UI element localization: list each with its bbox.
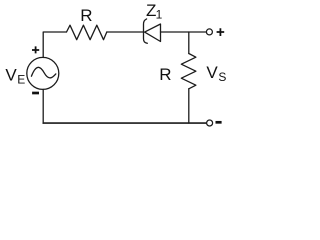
svg-text:S: S — [218, 70, 226, 84]
AC voltage source VE sine wave — [31, 67, 55, 78]
svg-text:V: V — [5, 66, 17, 85]
polarity - of source — [32, 92, 39, 95]
svg-text:V: V — [206, 63, 218, 82]
AC voltage source VE circle — [27, 57, 59, 89]
svg-text:E: E — [17, 73, 25, 87]
zener diode Z1 cathode bar — [144, 19, 148, 43]
svg-text:R: R — [159, 65, 171, 84]
wire zener to + output terminal — [161, 31, 207, 33]
output polarity - sign — [216, 121, 222, 124]
wire load resistor to bottom rail — [188, 89, 190, 123]
svg-text:R: R — [80, 6, 92, 25]
bottom rail wire — [43, 122, 207, 124]
wire resistor to zener Z1 — [107, 31, 144, 33]
output terminal + circle — [206, 29, 212, 35]
resistor R load (vertical zigzag) — [181, 54, 196, 89]
zener diode Z1 triangle — [145, 24, 161, 42]
wire source bottom to bottom rail — [42, 89, 44, 123]
wire source top to top-left corner — [43, 32, 66, 58]
output terminal - circle — [207, 120, 213, 126]
polarity + of source — [32, 46, 39, 53]
output polarity + sign — [217, 28, 225, 36]
junction node, wire down to load resistor — [188, 32, 190, 54]
svg-text:1: 1 — [156, 7, 163, 21]
resistor R series (horizontal zigzag) — [67, 25, 107, 40]
